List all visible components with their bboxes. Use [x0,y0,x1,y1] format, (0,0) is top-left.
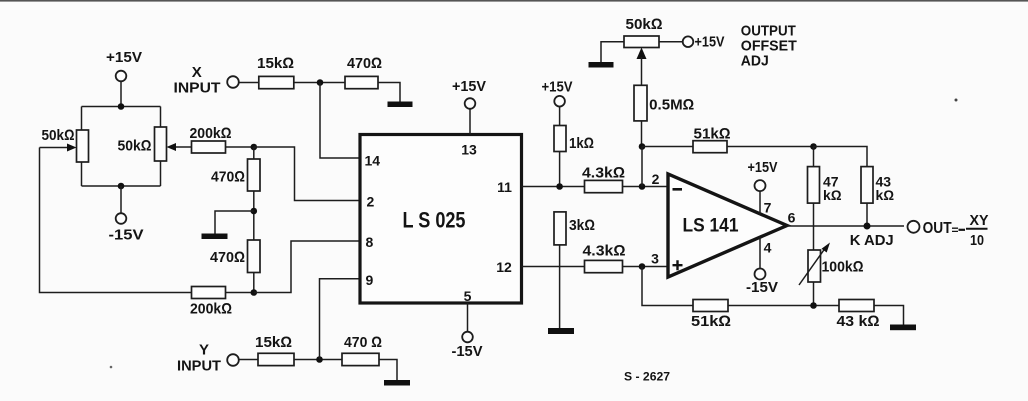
wire [120,82,122,107]
svg-text:51kΩ: 51kΩ [691,313,731,330]
wire to 43k top [814,147,868,167]
svg-text:+15V: +15V [452,78,486,95]
wire pin3 to bottom line [642,267,693,306]
svg-text:=: = [952,223,959,237]
svg-text:470Ω: 470Ω [211,169,245,186]
svg-text:15kΩ: 15kΩ [255,334,292,351]
svg-text:6: 6 [788,210,796,226]
svg-text:7: 7 [764,200,772,216]
+15V terminal pin 13 [452,78,486,135]
wire [294,82,345,84]
wire [728,305,839,307]
svg-text:kΩ: kΩ [823,187,842,203]
node 0.5M/51k [639,143,646,150]
node 200k/470 [251,289,258,296]
wire [160,161,162,186]
svg-text:50kΩ: 50kΩ [42,127,75,144]
X input terminal [174,64,239,97]
wire [378,83,400,102]
ground (X) [388,102,413,108]
svg-text:3: 3 [651,251,659,267]
svg-text:kΩ: kΩ [876,187,895,203]
svg-text:1kΩ: 1kΩ [569,135,594,152]
resistor 43k lower [837,300,880,331]
svg-text:OUT: OUT [923,220,952,237]
resistor 3k [554,212,595,328]
IC U1 LS025 [360,135,522,304]
svg-text:+15V: +15V [695,34,725,51]
potentiometer 50k right [118,127,167,161]
svg-text:4.3kΩ: 4.3kΩ [583,243,626,260]
svg-text:0.5MΩ: 0.5MΩ [649,97,694,114]
resistor 0.5M [634,85,694,146]
wire [238,359,258,361]
svg-text:INPUT: INPUT [174,80,221,97]
label OUT=-XY/10 [923,212,989,249]
-15V terminal (bridge bottom) [109,213,144,243]
resistor 200k lower [190,287,232,318]
wire to pin 9 [320,279,361,360]
svg-text:+15V: +15V [106,49,142,66]
svg-text:2: 2 [367,194,375,210]
resistor 4.3k lower [583,243,626,273]
svg-text:8: 8 [366,234,374,250]
wire [379,360,397,381]
-15V terminal pin 4 [746,237,778,296]
node 47k top [810,143,817,150]
wire [160,107,162,128]
potentiometer 50k left [42,127,89,162]
wire [623,266,669,268]
resistor 470 (X) [345,55,382,89]
wiper arrow (offset pot) [637,48,647,86]
node bridge bottom [118,183,125,190]
wire [81,162,83,186]
+15V terminal pin 7 [748,159,778,214]
svg-text:50kΩ: 50kΩ [626,16,663,33]
resistor 200k upper [190,125,232,153]
node ground stub [251,208,258,215]
svg-text:9: 9 [366,272,374,288]
svg-text:-15V: -15V [746,279,778,296]
resistor 47k [808,147,842,251]
svg-text:+15V: +15V [542,79,573,96]
wire 51k line [642,146,693,148]
svg-text:100kΩ: 100kΩ [822,259,864,276]
wire [727,146,814,148]
svg-text:-15V: -15V [452,343,483,360]
svg-text:10: 10 [970,232,984,249]
speck [955,99,958,102]
resistor 15k (Y) [255,334,294,366]
resistor 470 upper [211,147,260,240]
svg-text:43 kΩ: 43 kΩ [837,313,880,330]
+15V terminal (offset pot) [683,34,725,51]
wire [874,306,904,325]
+15V terminal (1k) [542,79,573,126]
svg-text:13: 13 [461,142,477,158]
output terminal [908,221,920,233]
svg-text:L S 025: L S 025 [403,208,466,233]
potentiometer 50k output offset [624,16,663,48]
wire [239,82,259,84]
svg-text:INPUT: INPUT [177,358,221,375]
node 1k/pin11 [556,183,563,190]
op-amp U2 LS141 [668,174,787,277]
node bridge top [118,103,125,110]
label OUTPUT OFFSET ADJ [741,23,797,70]
svg-text:15kΩ: 15kΩ [257,55,294,72]
svg-text:12: 12 [496,259,512,275]
svg-text:4: 4 [764,240,772,256]
svg-text:51kΩ: 51kΩ [694,126,731,143]
wiper arrow into left pot [40,144,77,152]
node X [317,79,324,86]
resistor 470 (Y) [342,334,382,366]
svg-text:S - 2627: S - 2627 [624,370,670,384]
node 43k/output [864,223,871,230]
node 100k bottom [810,302,817,309]
svg-text:ADJ: ADJ [741,53,769,70]
wire output line [787,225,904,227]
ground (offset pot) [589,62,614,68]
resistor 1k [554,126,594,187]
wire [215,211,254,234]
wire [226,292,254,294]
-15V terminal pin 5 [452,303,483,360]
ground (3k) [548,328,574,334]
wire [623,186,669,188]
svg-text:470Ω: 470Ω [210,249,245,266]
svg-text:50kΩ: 50kΩ [118,138,152,155]
wire [294,359,342,361]
wire to pin 8 [254,241,360,293]
wire left column [40,148,192,293]
wire [226,146,254,148]
ground (Y) [384,380,410,386]
svg-text:200kΩ: 200kΩ [190,125,232,142]
node pin2 junction [639,183,646,190]
wire [81,107,83,131]
resistor 4.3k upper [582,165,625,193]
wire [641,147,643,187]
svg-text:Y: Y [199,342,209,359]
wire bridge top [82,106,161,108]
resistor 43k vertical [861,167,894,226]
wiper arrow into right pot [167,143,192,151]
potentiometer 100k [799,243,864,306]
svg-text:14: 14 [365,153,381,169]
node Y [316,356,323,363]
wire pin 11 line [522,186,585,188]
svg-text:K ADJ: K ADJ [850,232,894,249]
ground (43k) [890,325,916,331]
svg-text:470 Ω: 470 Ω [344,334,382,351]
svg-text:XY: XY [970,212,989,229]
resistor 51k lower [691,300,731,331]
+15V terminal (bridge top) [106,49,142,81]
speck [110,366,113,369]
wire pin 12 line [522,266,585,268]
svg-text:X: X [192,64,202,81]
wire bridge bottom [82,185,161,187]
wire to ground [601,42,624,62]
svg-text:LS 141: LS 141 [683,216,739,237]
svg-text:-15V: -15V [109,227,144,244]
wire [120,186,122,213]
svg-text:3kΩ: 3kΩ [569,217,595,234]
svg-text:470Ω: 470Ω [347,55,382,72]
Y input terminal [177,342,239,375]
resistor 470 lower [210,240,260,293]
svg-text:11: 11 [497,179,512,195]
svg-text:4.3kΩ: 4.3kΩ [582,165,625,182]
svg-text:+15V: +15V [748,159,778,176]
wire to pin 14 [320,83,360,159]
ground [202,234,228,240]
svg-text:200kΩ: 200kΩ [190,301,232,318]
top border line [0,0,1028,2]
node pin3 junction [639,263,646,270]
svg-text:2: 2 [652,171,660,187]
resistor 15k (X) [257,55,294,89]
svg-text:5: 5 [464,288,472,304]
wire to pin 2 [254,147,360,201]
resistor 51k upper [693,126,731,153]
node 470 top [251,144,258,151]
wire to +15V [659,41,683,43]
